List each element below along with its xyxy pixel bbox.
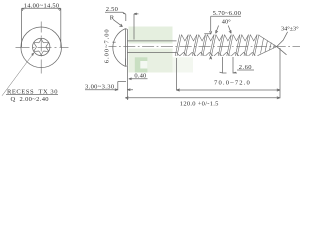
svg-text:R: R (110, 15, 115, 22)
thread 7 (223, 35, 240, 56)
shank bottom line (127, 51, 176, 53)
svg-text:14.00~14.50: 14.00~14.50 (24, 2, 60, 9)
dim 2.60 (220, 57, 255, 73)
svg-text:Q 2.00~2.40: Q 2.00~2.40 (11, 96, 49, 103)
svg-text:40°: 40° (222, 18, 231, 25)
recess leader (2, 53, 34, 96)
thread 2 (180, 35, 197, 56)
recess underline (6, 94, 58, 96)
thread 8 (231, 35, 248, 56)
torx star TX30 (34, 38, 49, 55)
watermark medium green bracket (135, 57, 148, 72)
thread 6 (214, 35, 231, 56)
dim 6.00~7.00 tick (112, 41, 115, 43)
dim 2.50 leader (105, 12, 139, 39)
side view centerline (109, 46, 301, 48)
tip cone (258, 35, 277, 56)
dim 120.0 (125, 94, 280, 99)
thread 9 (240, 35, 257, 56)
34 deg leaders (277, 32, 288, 55)
svg-text:5.70~6.00: 5.70~6.00 (213, 10, 242, 17)
front view vertical centerline (40, 22, 42, 74)
watermark upper band (129, 27, 173, 44)
threads (175, 35, 259, 56)
svg-text:0.40: 0.40 (134, 73, 146, 80)
watermark faint right block (173, 57, 194, 72)
svg-text:70.0~72.0: 70.0~72.0 (214, 79, 251, 86)
40 deg arrows (216, 26, 232, 34)
R leader (114, 20, 123, 27)
dim 3.00~3.30 (85, 82, 133, 91)
torx recess circle (33, 38, 50, 55)
head flange line (125, 29, 127, 67)
front view horizontal centerline (16, 46, 69, 48)
svg-text:34°±3°: 34°±3° (281, 25, 299, 32)
svg-text:2.60: 2.60 (239, 64, 252, 71)
head face extension to bottom dims (126, 66, 128, 100)
head circle (front view) (21, 27, 62, 68)
thread 4 (197, 35, 214, 56)
svg-text:RECESS TX 30: RECESS TX 30 (7, 89, 58, 96)
dim 0.40 (125, 59, 147, 80)
svg-text:120.0 +0/-1.5: 120.0 +0/-1.5 (180, 101, 219, 108)
dim 70.0~72.0 (177, 48, 281, 94)
tip threads (261, 38, 275, 53)
thread 10 (249, 35, 259, 56)
shank top line (127, 40, 176, 42)
svg-text:6.00~7.00: 6.00~7.00 (104, 28, 111, 63)
head face line (124, 29, 126, 67)
dim 5.70~6.00 (204, 16, 241, 59)
thread 1 (175, 35, 188, 56)
thread 3 (188, 35, 205, 56)
dim line 14.00~14.50 (22, 8, 61, 47)
svg-text:3.00~3.30: 3.00~3.30 (85, 83, 114, 90)
thread 5 (206, 35, 223, 56)
watermark lower band (129, 49, 173, 73)
svg-text:2.50: 2.50 (106, 6, 118, 13)
head dome arc (113, 29, 126, 67)
